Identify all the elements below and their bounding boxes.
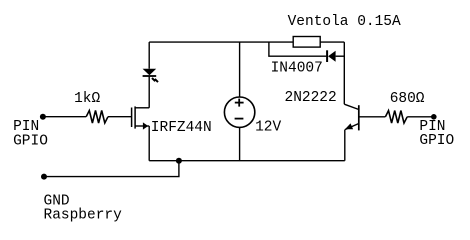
wire left GPIO to R1 [43, 116, 86, 118]
svg-text:Raspberry: Raspberry [44, 208, 123, 224]
svg-text:680Ω: 680Ω [390, 91, 425, 107]
wire LED anode up to top rail [148, 42, 150, 69]
resistor R1 1k [86, 111, 108, 124]
wire left node of diode branch [269, 42, 326, 56]
wire Q1 drain up to LED [148, 77, 150, 108]
wire ground stub [44, 161, 179, 177]
LED D1 [143, 69, 158, 82]
transistor Q1 IRFZ44N MOSFET [132, 106, 150, 129]
resistor R2 680 [385, 111, 407, 124]
wire top rail right of fan box [320, 41, 344, 43]
node right GPIO terminal [431, 114, 437, 120]
wire right vertical to Q2 collector [343, 42, 345, 104]
wire R2 to right GPIO terminal [407, 116, 434, 118]
svg-text:12V: 12V [255, 120, 281, 136]
node GND terminal [41, 174, 47, 180]
svg-text:IN4007: IN4007 [271, 60, 323, 76]
wire V1 minus down to bottom rail [239, 127, 241, 160]
wire diode to right vertical [336, 55, 345, 57]
svg-text:1kΩ: 1kΩ [74, 91, 100, 107]
fan load M1 box [293, 37, 320, 48]
wire R1 to Q1 gate [108, 116, 131, 118]
node left GPIO terminal [40, 114, 46, 120]
wire Q2 base to R2 [359, 116, 386, 118]
svg-text:GPIO: GPIO [13, 133, 48, 149]
voltage source V1 12V [224, 97, 254, 127]
svg-text:IRFZ44N: IRFZ44N [151, 120, 212, 136]
node junction bottom rail [176, 158, 182, 164]
transistor Q2 2N2222 [344, 104, 359, 130]
wire Q2 emitter down to bottom rail [344, 130, 346, 161]
svg-text:Ventola 0.15A: Ventola 0.15A [288, 14, 401, 30]
wire bottom rail [149, 160, 345, 162]
wire Q1 source down to bottom rail [148, 126, 150, 161]
wire top rail [149, 41, 293, 43]
svg-text:GPIO: GPIO [419, 133, 454, 149]
wire V1 plus up to top rail [239, 42, 241, 97]
svg-text:2N2222: 2N2222 [285, 90, 337, 106]
diode D2 IN4007 [327, 50, 336, 62]
